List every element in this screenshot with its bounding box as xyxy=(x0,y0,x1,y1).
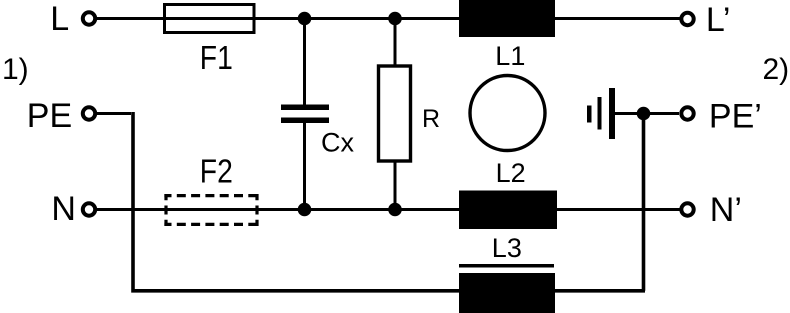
svg-text:1): 1) xyxy=(2,53,29,86)
svg-text:2): 2) xyxy=(763,53,790,86)
svg-text:N: N xyxy=(51,190,76,228)
svg-text:PE’: PE’ xyxy=(709,97,762,135)
svg-text:R: R xyxy=(422,105,440,133)
svg-text:L: L xyxy=(50,0,69,38)
svg-text:L’: L’ xyxy=(706,1,731,39)
svg-text:L3: L3 xyxy=(492,233,522,263)
svg-text:N’: N’ xyxy=(710,191,742,229)
svg-text:F2: F2 xyxy=(200,153,233,190)
svg-text:PE: PE xyxy=(27,97,72,135)
svg-text:F1: F1 xyxy=(200,39,233,76)
svg-text:L2: L2 xyxy=(496,158,526,188)
svg-text:Cx: Cx xyxy=(321,128,354,158)
svg-text:L1: L1 xyxy=(495,41,525,71)
